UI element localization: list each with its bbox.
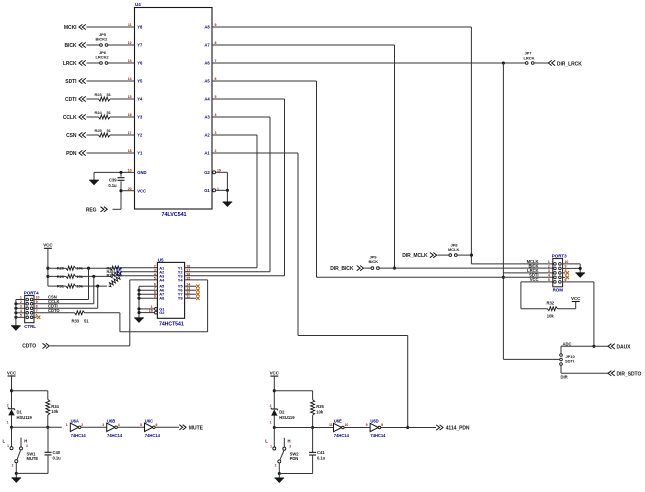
svg-text:A7: A7 xyxy=(204,43,210,48)
svg-text:4: 4 xyxy=(548,274,550,278)
svg-text:10k: 10k xyxy=(76,284,83,289)
svg-text:Y8: Y8 xyxy=(137,25,143,30)
svg-text:19: 19 xyxy=(149,309,153,313)
svg-text:R29: R29 xyxy=(57,274,65,279)
svg-text:Y3: Y3 xyxy=(137,115,143,120)
svg-text:74HC14: 74HC14 xyxy=(107,433,123,438)
svg-text:CSN: CSN xyxy=(66,133,77,139)
svg-text:11: 11 xyxy=(329,423,333,427)
svg-text:PDN: PDN xyxy=(290,456,299,461)
svg-text:C41: C41 xyxy=(317,450,325,455)
svg-text:D1: D1 xyxy=(17,409,23,414)
svg-text:H: H xyxy=(288,438,291,443)
svg-text:HSU119: HSU119 xyxy=(279,415,295,420)
svg-text:L: L xyxy=(3,438,6,443)
svg-text:0.1u: 0.1u xyxy=(53,455,62,460)
svg-text:470: 470 xyxy=(116,273,122,278)
svg-text:4114_PDN: 4114_PDN xyxy=(446,426,470,432)
svg-text:74HC14: 74HC14 xyxy=(145,433,161,438)
svg-text:SDTI: SDTI xyxy=(565,359,574,364)
svg-text:10: 10 xyxy=(345,423,349,427)
svg-text:Y7: Y7 xyxy=(137,43,143,48)
svg-text:MUTE: MUTE xyxy=(27,456,39,461)
svg-text:BICK: BICK xyxy=(369,259,379,264)
svg-text:A8: A8 xyxy=(159,296,165,301)
svg-text:CCLK: CCLK xyxy=(63,115,77,121)
svg-text:3: 3 xyxy=(548,269,550,273)
svg-text:C40: C40 xyxy=(53,450,61,455)
svg-text:1: 1 xyxy=(270,444,272,448)
svg-text:1: 1 xyxy=(7,444,9,448)
svg-text:5: 5 xyxy=(154,276,156,280)
svg-text:R23: R23 xyxy=(95,92,103,97)
svg-text:R24: R24 xyxy=(95,110,103,115)
svg-text:74HCT541: 74HCT541 xyxy=(159,321,184,327)
svg-text:1: 1 xyxy=(270,421,272,425)
svg-text:5: 5 xyxy=(140,423,142,427)
svg-text:LRCK2: LRCK2 xyxy=(96,54,110,59)
svg-text:2: 2 xyxy=(270,404,272,408)
svg-text:8: 8 xyxy=(381,423,383,427)
svg-text:10k: 10k xyxy=(76,266,83,271)
svg-text:U6C: U6C xyxy=(145,418,153,423)
svg-text:10k: 10k xyxy=(76,274,83,279)
svg-text:VCC: VCC xyxy=(43,243,53,248)
svg-text:Y4: Y4 xyxy=(137,97,143,102)
svg-text:VCC: VCC xyxy=(270,371,280,376)
svg-text:74HC14: 74HC14 xyxy=(71,433,87,438)
svg-text:A2: A2 xyxy=(204,133,210,138)
svg-text:0.1u: 0.1u xyxy=(108,183,117,188)
svg-text:Y6: Y6 xyxy=(137,61,143,66)
svg-text:G1: G1 xyxy=(204,188,210,193)
svg-text:PORT3: PORT3 xyxy=(552,253,567,258)
svg-text:2: 2 xyxy=(81,423,83,427)
svg-text:A6: A6 xyxy=(204,61,210,66)
svg-text:VCC: VCC xyxy=(7,370,17,375)
svg-text:C39: C39 xyxy=(109,178,117,183)
svg-text:U5: U5 xyxy=(158,257,164,262)
svg-text:Y5: Y5 xyxy=(137,79,143,84)
svg-text:Y8: Y8 xyxy=(178,296,184,301)
svg-text:H: H xyxy=(24,438,27,443)
svg-text:DIR_LRCK: DIR_LRCK xyxy=(557,61,582,67)
svg-text:VCC: VCC xyxy=(530,277,539,282)
svg-text:74LVC541: 74LVC541 xyxy=(162,212,187,218)
svg-text:PDN: PDN xyxy=(66,151,77,157)
svg-text:74HC14: 74HC14 xyxy=(370,433,386,438)
svg-text:R30: R30 xyxy=(107,273,114,278)
svg-text:2: 2 xyxy=(548,265,550,269)
svg-text:3: 3 xyxy=(26,444,28,448)
svg-text:9: 9 xyxy=(366,423,368,427)
svg-text:R26: R26 xyxy=(57,266,65,271)
svg-text:51: 51 xyxy=(107,128,112,133)
svg-text:2: 2 xyxy=(7,404,9,408)
svg-text:10k: 10k xyxy=(316,409,324,414)
svg-text:VCC: VCC xyxy=(571,296,581,301)
svg-text:LRCK: LRCK xyxy=(524,55,535,60)
svg-text:U6A: U6A xyxy=(71,418,79,423)
svg-text:U4: U4 xyxy=(135,2,141,7)
svg-text:1: 1 xyxy=(66,423,68,427)
svg-text:A8: A8 xyxy=(204,25,210,30)
svg-text:R31: R31 xyxy=(57,284,65,289)
svg-text:U6E: U6E xyxy=(334,419,342,424)
svg-text:R25: R25 xyxy=(95,128,103,133)
svg-text:Y2: Y2 xyxy=(137,133,143,138)
svg-text:LRCK: LRCK xyxy=(63,61,77,67)
svg-text:BICK2: BICK2 xyxy=(96,36,109,41)
svg-text:CDTO: CDTO xyxy=(22,344,36,350)
svg-text:R33: R33 xyxy=(72,318,80,323)
svg-text:A3: A3 xyxy=(204,115,210,120)
svg-text:4: 4 xyxy=(118,423,120,427)
svg-text:A4: A4 xyxy=(159,277,165,282)
svg-text:A4: A4 xyxy=(204,97,210,102)
svg-text:3: 3 xyxy=(289,444,291,448)
svg-text:ADC: ADC xyxy=(563,341,572,346)
svg-text:VCC: VCC xyxy=(137,188,146,193)
svg-text:1: 1 xyxy=(7,420,9,424)
svg-text:SDTI: SDTI xyxy=(65,79,77,85)
svg-text:DIR_BICK: DIR_BICK xyxy=(330,266,354,272)
svg-text:51: 51 xyxy=(84,318,89,323)
svg-text:A5: A5 xyxy=(204,79,210,84)
svg-text:CDTI: CDTI xyxy=(65,97,77,103)
svg-text:10k: 10k xyxy=(547,314,555,319)
svg-text:G2: G2 xyxy=(159,310,165,315)
svg-text:MUTE: MUTE xyxy=(189,425,204,431)
svg-text:51: 51 xyxy=(107,110,112,115)
svg-text:MCKI: MCKI xyxy=(64,25,77,31)
svg-text:BICK: BICK xyxy=(64,43,76,49)
svg-text:1: 1 xyxy=(548,260,550,264)
svg-text:51: 51 xyxy=(107,92,112,97)
svg-text:CTRL: CTRL xyxy=(24,324,36,329)
svg-text:74HC14: 74HC14 xyxy=(334,433,350,438)
svg-text:10k: 10k xyxy=(51,409,59,414)
svg-text:DAUX: DAUX xyxy=(617,344,632,350)
svg-text:GND: GND xyxy=(137,170,146,175)
svg-text:U6B: U6B xyxy=(107,418,115,423)
svg-text:2: 2 xyxy=(12,463,14,467)
svg-text:REG: REG xyxy=(86,207,97,213)
svg-text:A1: A1 xyxy=(204,151,210,156)
svg-text:U6D: U6D xyxy=(370,419,378,424)
svg-text:Y4: Y4 xyxy=(178,277,184,282)
svg-text:DIR_SDTO: DIR_SDTO xyxy=(617,371,642,377)
svg-text:D2: D2 xyxy=(279,410,285,415)
svg-text:ROM: ROM xyxy=(553,288,564,293)
svg-text:Y1: Y1 xyxy=(137,151,143,156)
svg-text:R32: R32 xyxy=(547,301,555,306)
svg-text:MCLK: MCLK xyxy=(448,247,460,252)
svg-text:L: L xyxy=(265,438,268,443)
svg-text:3: 3 xyxy=(102,423,104,427)
svg-text:0.1u: 0.1u xyxy=(317,456,326,461)
svg-text:DIR_MCLK: DIR_MCLK xyxy=(402,253,428,259)
svg-text:G2: G2 xyxy=(204,170,210,175)
svg-text:2: 2 xyxy=(275,464,277,468)
svg-text:HSU119: HSU119 xyxy=(17,415,33,420)
svg-text:DIR: DIR xyxy=(561,375,568,380)
svg-text:6: 6 xyxy=(156,423,158,427)
